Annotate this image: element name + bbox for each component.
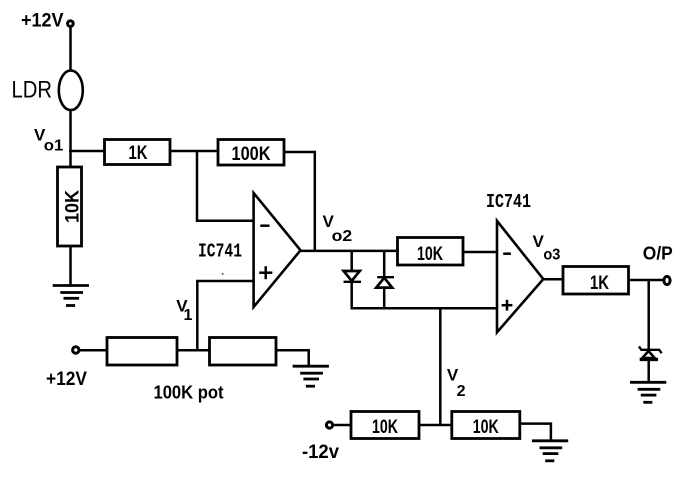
svg-text:1: 1	[184, 307, 193, 324]
terminal +12V pot	[73, 347, 79, 353]
op-amp U1	[254, 193, 301, 307]
wire pot B to ground G2	[275, 350, 309, 366]
terminal O/P	[664, 276, 670, 284]
pot section B	[210, 338, 277, 366]
wire 10K to U2 inverting input	[463, 251, 497, 254]
svg-text:IC741: IC741	[486, 191, 531, 213]
stray dot artifact	[222, 273, 224, 275]
wire U1 output	[301, 250, 398, 253]
wire junction down to op-amp U1 inverting input	[197, 150, 254, 221]
wire 10K to ground G4	[519, 424, 551, 440]
svg-text:10K: 10K	[372, 417, 398, 438]
svg-text:-12v: -12v	[302, 442, 339, 463]
svg-text:100K pot: 100K pot	[154, 383, 224, 403]
svg-text:10K: 10K	[473, 417, 499, 438]
resistor 1K	[105, 140, 171, 165]
U1 plus sign	[259, 271, 272, 274]
wire 1K to 100K	[170, 150, 218, 153]
label V2	[447, 366, 466, 400]
terminal +12V top	[68, 21, 74, 27]
resistor 10K bottom right	[452, 412, 520, 439]
svg-text:+12V: +12V	[46, 369, 87, 390]
pot section A	[107, 338, 177, 366]
wire U2 output to 1K	[543, 278, 563, 281]
U1 minus sign	[260, 224, 269, 227]
svg-text:IC741: IC741	[198, 241, 242, 263]
wire 1K to O/P terminal	[629, 279, 664, 282]
diode D1 (cathode down)	[350, 251, 353, 271]
svg-text:o1: o1	[44, 137, 64, 154]
svg-text:V: V	[447, 366, 459, 385]
resistor 1K output	[563, 267, 629, 295]
resistor 100K	[218, 140, 284, 166]
ground G4	[532, 441, 568, 461]
svg-text:100K: 100K	[232, 144, 271, 165]
ground G3	[630, 382, 666, 402]
svg-text:1K: 1K	[590, 273, 609, 294]
zener diode Z1	[639, 347, 662, 354]
wire down to zener	[647, 280, 650, 350]
wire terminal to pot	[79, 349, 107, 352]
wire terminal to 10K	[333, 424, 351, 427]
node V2 vertical wire	[439, 308, 442, 425]
svg-text:O/P: O/P	[643, 244, 673, 264]
svg-text:LDR: LDR	[12, 76, 53, 103]
label Vo3	[533, 232, 561, 263]
svg-text:2: 2	[457, 383, 466, 400]
label Vo1	[34, 125, 63, 154]
wire 10K to node V2	[418, 424, 452, 427]
ground G2	[293, 366, 329, 386]
ground G1	[53, 286, 89, 306]
wire pot A to pot B	[176, 349, 210, 352]
wire diode bus to U2 non-inverting input	[351, 307, 498, 310]
wire terminal to LDR	[69, 27, 72, 71]
terminal -12v	[326, 422, 332, 428]
svg-text:o2: o2	[332, 228, 353, 245]
resistor 10K to U2	[398, 238, 464, 266]
U2 plus sign	[502, 304, 513, 307]
op-amp U2	[497, 221, 543, 332]
svg-text:o3: o3	[543, 247, 560, 264]
svg-text:10K: 10K	[63, 190, 84, 223]
label V1	[176, 296, 192, 324]
svg-text:+12V: +12V	[21, 10, 64, 31]
diode D2 (cathode up)	[383, 251, 386, 277]
wire LDR to node Vo1	[69, 110, 72, 167]
U2 minus sign	[503, 252, 511, 255]
svg-text:10K: 10K	[417, 244, 443, 265]
wire node Vo1 to R 1K	[69, 150, 104, 153]
label Vo2	[323, 212, 353, 245]
wire U1 non-inverting input to node V1	[197, 281, 253, 351]
resistor 10K vertical	[58, 167, 82, 246]
LDR	[59, 71, 83, 111]
wire 10K to ground	[69, 246, 72, 286]
wire 100K out to feedback corner	[284, 152, 315, 250]
resistor 10K bottom left	[351, 412, 419, 439]
svg-text:1K: 1K	[129, 143, 148, 164]
